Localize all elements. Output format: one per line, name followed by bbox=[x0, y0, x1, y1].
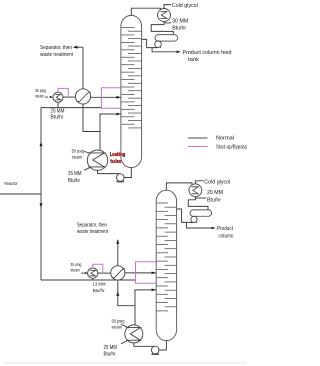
svg-text:Reactor: Reactor bbox=[4, 181, 18, 187]
svg-text:Btu/hr: Btu/hr bbox=[207, 197, 221, 203]
pump P4 column2 bottoms bbox=[151, 346, 159, 354]
wire steam stub reboiler1 upper bbox=[84, 151, 90, 153]
heat exchanger E1 steam heater (35 psig, 20 MM) bbox=[53, 92, 63, 102]
pump P3 column2 reflux bbox=[191, 216, 197, 222]
svg-text:35 MM: 35 MM bbox=[68, 171, 82, 177]
wire condenser2 outlet to reflux drum2 bbox=[188, 197, 208, 210]
svg-text:Btu/hr: Btu/hr bbox=[172, 25, 186, 31]
svg-text:steam: steam bbox=[112, 325, 123, 330]
condenser E3 column1 overhead (30 MM) bbox=[158, 9, 171, 22]
wire reboiler1 feed from exchanger1 bottom bbox=[83, 104, 100, 132]
arrow reboiler1 return into column1 bbox=[116, 113, 120, 116]
svg-text:Leaking: Leaking bbox=[110, 152, 126, 158]
svg-text:Separator, then: Separator, then bbox=[77, 223, 107, 229]
svg-text:steam: steam bbox=[72, 154, 83, 159]
svg-text:Start-up/Bypass: Start-up/Bypass bbox=[216, 144, 247, 150]
wire reboiler2 feed from exchanger2 bottom bbox=[118, 280, 135, 306]
wire steam stub reboiler2 upper bbox=[121, 324, 128, 327]
arrow steam1 into heater1 bbox=[50, 96, 54, 98]
svg-text:Btu/hr: Btu/hr bbox=[104, 352, 116, 358]
wire magenta startup box column2 bbox=[136, 262, 156, 284]
arrow feed into column2 bbox=[152, 272, 156, 275]
wire condensate stub reboiler2 lower bbox=[121, 341, 127, 344]
wire waste treatment riser 2 from exchanger2 top bbox=[117, 240, 119, 266]
wire bypass below heater2 bbox=[41, 279, 136, 281]
wire 20MM leader condenser2 bbox=[195, 197, 206, 199]
svg-text:column: column bbox=[219, 233, 234, 239]
wire magenta bypass over heater1 bbox=[58, 88, 68, 97]
wire steam line into heater2 bbox=[81, 272, 84, 274]
legend normal line bbox=[188, 137, 208, 139]
wire condensate stub reboiler1 lower bbox=[84, 167, 90, 170]
wire riser down to column2 feed train bbox=[40, 194, 42, 280]
wire column1 overhead to condenser1 bbox=[131, 8, 160, 15]
arrow steam2 into heater2 bbox=[85, 272, 89, 274]
arrow up into exchanger2 bottom bbox=[116, 291, 119, 296]
scan artifact bottom edge bbox=[4, 362, 246, 364]
wire cold glycol leader condenser2 bbox=[195, 181, 203, 184]
svg-text:Cold glycol: Cold glycol bbox=[204, 179, 230, 185]
arrow waste2 up bbox=[116, 239, 119, 244]
svg-text:20 MM: 20 MM bbox=[207, 190, 223, 196]
svg-text:30 MM: 30 MM bbox=[172, 18, 188, 24]
heat exchanger E6 steam heater2 (35 psig, 13 MM) bbox=[88, 268, 98, 278]
condenser E5 column2 overhead (20 MM) bbox=[189, 184, 202, 197]
wire waste treatment horizontal bbox=[77, 46, 83, 48]
arrow product2 bbox=[212, 227, 216, 230]
wire 30MM leader condenser1 bbox=[164, 22, 171, 24]
wire heater1 to exchanger1 bbox=[63, 96, 76, 98]
column C2 trays bbox=[157, 203, 177, 311]
wire reboiler2 vapor return riser bbox=[135, 290, 156, 325]
wire column2 overhead to condenser2 bbox=[166, 183, 192, 190]
arrowheads bbox=[40, 46, 216, 296]
wire cold glycol leader condenser1 bbox=[164, 5, 171, 9]
column C1 trays bbox=[121, 28, 141, 128]
wire reboiler1 bottoms to pump1 bbox=[98, 170, 120, 173]
svg-text:steam: steam bbox=[71, 267, 81, 272]
svg-text:13 MM: 13 MM bbox=[93, 282, 106, 288]
arrow product1 bbox=[177, 51, 181, 54]
wire riser up to column1 feed train bbox=[40, 108, 42, 194]
wire magenta startup box column1 bbox=[101, 88, 120, 108]
wire exchanger1 to column1 feed bbox=[91, 96, 121, 98]
arrow riser down bbox=[40, 203, 43, 208]
wire column2 bottoms outlet to pump2 bbox=[159, 341, 166, 350]
svg-text:Cold glycol: Cold glycol bbox=[172, 3, 198, 9]
reboiler E8 column2 (25 MM) bbox=[125, 325, 143, 343]
svg-text:tube: tube bbox=[110, 159, 121, 165]
column C1 (first distillation column shell) bbox=[121, 15, 142, 167]
arrow riser up bbox=[40, 142, 43, 147]
wire reflux1 to column1 top bbox=[141, 39, 158, 47]
wire reflux2 to column2 top bbox=[176, 209, 194, 222]
legend startup/bypass line bbox=[188, 146, 208, 148]
arrow feed into column1 bbox=[116, 96, 120, 99]
wire steam line into heater1 bbox=[45, 96, 48, 98]
svg-text:Product column feed: Product column feed bbox=[183, 50, 232, 56]
heat exchanger E7 feed/effluent exchanger column2 bbox=[111, 266, 125, 280]
wire column1 bottoms outlet to pump1 bbox=[124, 168, 131, 178]
wire heater2 bottom stub bbox=[92, 278, 94, 280]
wire condenser1 outlet to reflux drum1 bbox=[151, 22, 173, 35]
svg-text:Separator, then: Separator, then bbox=[40, 45, 72, 51]
svg-text:35 psig: 35 psig bbox=[70, 262, 81, 267]
wire magenta bypass over heater2 bbox=[93, 264, 103, 273]
wire reactor feed bbox=[0, 193, 41, 195]
pump P2 column1 reflux bbox=[155, 41, 162, 48]
svg-text:tank: tank bbox=[188, 57, 199, 63]
svg-text:50 psig: 50 psig bbox=[112, 319, 125, 324]
wire bypass below heater1 bbox=[41, 107, 101, 109]
svg-text:Btu/hr: Btu/hr bbox=[68, 178, 80, 184]
wire heater2 to exchanger2 bbox=[98, 272, 111, 274]
svg-text:35 psig: 35 psig bbox=[35, 88, 46, 93]
svg-text:Btu/hr: Btu/hr bbox=[51, 115, 64, 121]
arrow waste1 left bbox=[73, 46, 78, 49]
svg-text:waste treatment: waste treatment bbox=[77, 229, 108, 235]
svg-text:Btu/hr: Btu/hr bbox=[93, 288, 105, 294]
svg-text:waste treatment: waste treatment bbox=[40, 52, 73, 58]
wire exchanger2 to column2 feed bbox=[125, 272, 156, 274]
column C2 (second distillation column shell) bbox=[156, 190, 176, 340]
wire product2 branch bbox=[187, 222, 213, 228]
reflux drum D1 column1 bbox=[155, 35, 178, 42]
start-up/bypass magenta piping bbox=[58, 88, 208, 283]
reboiler E4 column1 (35 MM, leaking tube) bbox=[87, 150, 107, 170]
wire reboiler2 bottoms to pump2 bbox=[134, 343, 155, 346]
svg-text:25 MM: 25 MM bbox=[104, 345, 118, 351]
wire product1 branch to feed tank bbox=[152, 48, 177, 52]
wire reboiler1 vapor return riser bbox=[100, 114, 121, 151]
arrow reboiler2 return into column2 bbox=[152, 289, 156, 292]
svg-text:steam: steam bbox=[35, 93, 45, 98]
heat exchanger E2 feed/effluent exchanger column1 bbox=[75, 89, 90, 104]
wire waste treatment riser from exchanger1 top bbox=[82, 47, 84, 89]
svg-text:Normal: Normal bbox=[216, 136, 234, 142]
pump P1 column1 bottoms bbox=[117, 174, 125, 182]
wire heater1 bottom stub bbox=[57, 102, 59, 107]
reflux drum D2 column2 bbox=[190, 210, 212, 216]
svg-text:50 psig: 50 psig bbox=[72, 148, 85, 153]
svg-text:Product: Product bbox=[217, 226, 233, 232]
